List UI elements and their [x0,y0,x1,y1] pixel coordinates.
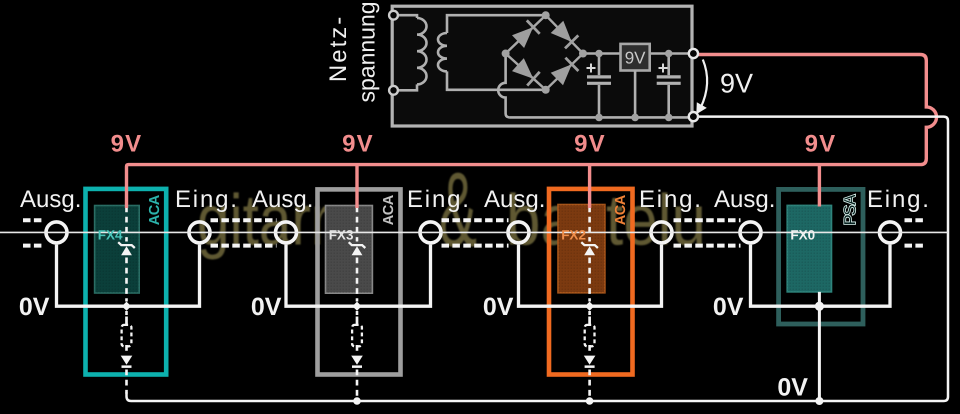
PSU enclosure box [392,6,692,126]
zener diode FX2 internal [584,246,595,255]
svg-text:0V: 0V [483,293,514,321]
wire internal dashed FX2 [588,207,591,399]
bridge diode D1 top-left [512,20,540,48]
node bottom rail FX3 [353,397,361,405]
svg-text:Ausg.: Ausg. [252,186,313,213]
svg-text:Eing.: Eing. [407,186,471,213]
capacitor C2 [657,54,681,118]
node bridge top [542,11,550,19]
svg-text:FX3: FX3 [329,228,354,243]
terminal PSU 0V output [689,112,698,121]
cable stub right [905,220,926,245]
svg-text:Eing.: Eing. [175,186,239,213]
plug barrel dashed FX2 [588,317,591,326]
arrow 9V across outputs [701,60,708,109]
wire signal line [0,231,948,233]
plus sign C1 [587,64,596,73]
capacitor C1 [587,54,611,118]
terminal mains top [389,11,398,20]
wire regulator ground pin [634,71,637,118]
FX2 enclosure [549,189,633,375]
FX3 enclosure [318,189,401,374]
jack Eing FX4 [189,222,210,243]
node bridge bottom [542,86,550,94]
jack Ausg FX4 [46,222,67,243]
svg-text:9V: 9V [111,131,143,158]
FX4 pcb block [95,206,140,294]
FX4 enclosure [86,189,167,375]
svg-text:Ausg.: Ausg. [714,186,775,213]
FX2 pcb block [558,205,605,293]
jack Ausg FX3 [276,222,297,243]
node bridge right [579,50,587,58]
transformer T1 secondary winding [438,33,447,71]
jack Eing FX3 [420,222,441,243]
plus sign C2 [659,64,668,73]
plug barrel dashed FX4 [125,317,128,326]
bridge diode D4 bottom-right [551,58,579,86]
svg-text:9V: 9V [574,131,606,158]
wire bridge minus drop with hop [498,54,509,118]
wire internal dashed FX3 [356,207,359,399]
svg-text:Ausg.: Ausg. [484,186,545,213]
wire DC plus rail [583,52,693,55]
svg-text:9V: 9V [625,49,646,68]
svg-text:ACA: ACA [381,194,397,225]
jack Eing FX0 [880,222,901,243]
svg-text:Eing.: Eing. [639,186,703,213]
FX0 pcb block [787,205,831,292]
jack Eing FX2 [651,222,672,243]
wire 0V return and bottom rail [127,117,949,401]
plug barrel dashed FX3 [356,317,359,326]
voltage regulator U1 9V [621,44,650,71]
svg-text:0V: 0V [713,293,744,321]
node FX0 bottom rail [815,397,823,405]
diode FX3 lower [351,356,363,365]
wire FX0 ground solid [818,292,821,401]
FX3 pcb block [326,206,373,294]
cable FX4 to FX3 [211,220,277,245]
svg-text:spannung: spannung [354,1,380,102]
FX0 enclosure [779,189,863,324]
svg-text:9V: 9V [720,69,753,99]
wire 9V rail drop FX3 [355,165,358,208]
wire primary top [394,15,418,18]
svg-text:0V: 0V [251,293,282,321]
svg-text:9V: 9V [342,131,374,158]
wire 0V loop FX4 [57,245,200,307]
node C2 bottom [665,114,673,122]
wire 9V rail drop FX2 [588,165,591,208]
wire 0V loop FX3 [286,245,431,307]
svg-text:Ausg.: Ausg. [20,186,81,213]
cable FX2 to FX0 [674,220,741,245]
wire primary bottom [394,84,418,90]
bridge rectifier diamond [506,15,583,90]
svg-text:FX0: FX0 [790,228,815,243]
svg-text:FX2: FX2 [561,228,586,243]
transformer T1 primary winding [417,18,427,84]
wire secondary top to bridge [447,15,546,33]
svg-text:9V: 9V [805,131,837,158]
bridge diode D3 bottom-left [512,58,540,86]
diode FX2 lower [584,356,596,365]
node FX0 0V junction [815,302,824,311]
svg-text:0V: 0V [19,293,50,321]
svg-text:Netz-: Netz- [325,15,352,82]
svg-text:Eing.: Eing. [867,186,931,213]
jack Ausg FX2 [508,222,529,243]
wire 9V feed pink with hop [127,55,937,209]
wire PSU ground rail [510,116,694,119]
terminal mains bottom [389,86,398,95]
wire 0V loop FX2 [519,245,662,307]
jack Ausg FX0 [740,222,761,243]
diode FX4 lower [121,356,133,365]
svg-text:ACA: ACA [147,194,163,225]
cable FX3 to FX2 [442,220,509,245]
svg-text:FX4: FX4 [98,228,123,243]
svg-text:ACA: ACA [613,194,629,225]
node bottom rail FX2 [586,397,594,405]
svg-text:PSA: PSA [841,194,860,226]
node 0V junction FX4 [122,302,131,311]
cable stub left [23,220,44,245]
wire internal dashed FX4 [125,207,128,394]
bridge diode D2 top-right [551,21,579,49]
terminal PSU +9V output [689,49,698,58]
zener diode FX4 internal [121,246,132,255]
node C2 top [665,50,673,58]
wire secondary bottom to bridge [447,71,546,89]
watermark gitarre & bastelu [197,151,706,269]
node C1 top [595,50,603,58]
node bridge left [502,50,510,58]
node 0V junction FX2 [585,302,594,311]
wire 9V rail drop FX0 [818,165,821,207]
node regulator bottom [631,114,639,122]
node 0V junction FX3 [352,302,361,311]
node C1 bottom [595,114,603,122]
zener diode FX3 internal [352,246,363,255]
svg-text:0V: 0V [777,374,808,402]
wire 0V loop FX0 [751,245,891,307]
